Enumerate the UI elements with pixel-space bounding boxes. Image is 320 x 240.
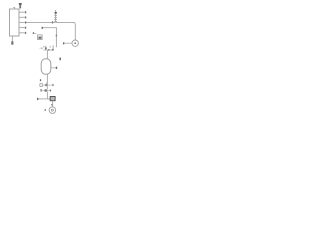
flange tick right xyxy=(52,84,53,86)
stub pin 2 xyxy=(19,16,25,18)
wire: bottom header xyxy=(38,98,50,100)
fitting dot 2 xyxy=(52,49,54,51)
flange tick right xyxy=(50,90,51,92)
fitting dot xyxy=(48,49,49,51)
drain fitting at box bottom xyxy=(11,41,13,44)
coil cap xyxy=(55,12,57,14)
stub pin 5 xyxy=(19,32,25,34)
stub pin 1 xyxy=(19,11,25,13)
level tap tick left of pipe xyxy=(40,79,41,81)
wire: drop into tank xyxy=(46,50,48,58)
valve body xyxy=(45,47,47,49)
manifold box U1 xyxy=(10,9,20,36)
flange tick on pump suction xyxy=(51,104,52,105)
flange tick left of PI1 xyxy=(63,42,64,44)
wire: side stub from tank xyxy=(51,67,56,69)
valve row 2 xyxy=(40,89,51,92)
instrument circle PI1 xyxy=(72,40,78,46)
nozzle mark right of tank top xyxy=(59,58,61,61)
terminal tick pin 1 xyxy=(25,11,26,13)
relief valve V1 on box top xyxy=(19,3,22,8)
sensor dot S1 xyxy=(33,32,34,34)
flange tick left of coil xyxy=(52,21,53,23)
small box xyxy=(40,84,42,87)
valve bowtie xyxy=(45,84,47,86)
heater coil H1 xyxy=(54,10,57,22)
pipe segment xyxy=(44,49,54,51)
flange tick on side stub xyxy=(56,67,57,69)
terminal tick pin 2 xyxy=(25,16,26,18)
stem xyxy=(45,83,47,84)
stub pin 3 / wire: long pipe to coil xyxy=(19,21,55,23)
strainer box F1 xyxy=(50,97,55,101)
tiny label marks xyxy=(43,45,44,48)
wire: drop from box bottom xyxy=(11,36,13,41)
wire: bypass line with end tick xyxy=(42,28,56,48)
left fitting xyxy=(40,89,42,91)
wire: drop to pump xyxy=(52,101,54,107)
terminal tick pin 5 xyxy=(25,32,26,34)
pump P1 xyxy=(49,107,56,114)
flange tick on bypass drop xyxy=(56,35,57,37)
tick left of pump xyxy=(45,109,46,111)
flange tick at bypass left end xyxy=(42,27,43,29)
wire: drop to bottom header xyxy=(46,92,48,99)
transmitter box T1 xyxy=(38,35,43,40)
wire: riser from box top xyxy=(13,8,15,9)
wire: between valve rows xyxy=(46,86,48,89)
valve row 1 below tank xyxy=(40,83,54,87)
wire: sensor lead xyxy=(34,32,37,34)
pipe xyxy=(42,84,52,86)
flange tick left xyxy=(42,48,43,49)
inlet valve group above tank xyxy=(40,45,54,50)
valve stem xyxy=(45,46,47,48)
terminal tick pin 3 xyxy=(25,21,26,23)
cap tick at header left end xyxy=(37,98,38,100)
stub pin 4 xyxy=(19,27,25,29)
tank TK1 xyxy=(41,59,51,75)
wire: tank bottom drop xyxy=(46,74,48,84)
branch stub xyxy=(52,45,54,50)
pipe xyxy=(41,89,52,91)
valve bowtie xyxy=(45,89,48,91)
terminal tick pin 4 xyxy=(25,27,26,29)
wire: tap into PI1 from left xyxy=(64,42,72,44)
wire: pipe from coil to right corner and down xyxy=(56,22,76,40)
